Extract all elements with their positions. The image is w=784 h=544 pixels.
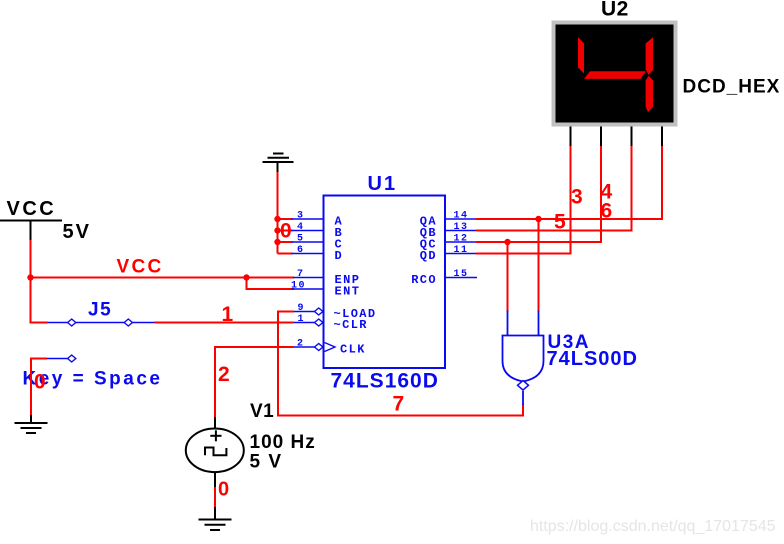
V1 plus sign [210,430,221,441]
svg-text:0: 0 [218,479,229,501]
pin name D [335,249,342,263]
pin stub QA pin14 [445,218,477,220]
V1 top terminal stub [214,417,216,429]
pin name B [335,226,342,240]
NAND output stub (blue) [522,391,524,405]
wire V1 to CLK, net 2 [215,347,294,418]
svg-text:U2: U2 [601,0,629,21]
pin stub ~LOAD pin9 with bubble [294,311,315,313]
Key = Space label [23,369,163,390]
wire QC net 4 [476,145,601,242]
junction dot A [274,216,280,222]
junction dot C [274,239,280,245]
U3A label [548,332,591,353]
svg-text:1: 1 [298,314,304,325]
svg-text:VCC: VCC [117,257,164,278]
wire QA net 5 [476,145,662,219]
junction dot ENP branch [243,274,249,280]
svg-text:7: 7 [393,393,405,416]
junction dot QA [535,216,541,222]
V1 clock source circle [186,429,244,473]
switch J5 [47,323,155,359]
svg-text:ENT: ENT [335,285,361,299]
svg-text:RCO: RCO [411,273,437,287]
pin name ~LOAD [334,307,377,321]
74LS00D label [547,348,639,370]
5 V label [250,452,283,473]
segment G (digit 4 middle) [584,71,646,79]
svg-text:100 Hz: 100 Hz [250,432,316,453]
pin number 11 [454,245,469,256]
100 Hz label [250,432,316,453]
net number 2 [218,363,230,386]
svg-text:QD: QD [420,249,437,263]
wire V1 bottom to ground, net 0 [214,487,216,508]
V1 label [250,401,274,422]
svg-text:15: 15 [454,269,469,280]
pin stub ENP pin7 [293,277,324,279]
pin number 10 [291,281,306,292]
net number 0 (ABCD) [280,220,292,243]
pin name ~CLR [334,318,368,332]
wire NAND output to ~LOAD, net 7 [278,312,523,416]
watermark [530,518,776,535]
V1 bottom terminal stub [214,472,216,489]
wire QD net 3 [476,145,571,254]
pin name ENP [335,273,361,287]
svg-text:2: 2 [297,339,303,350]
wire QA branch down to NAND input [538,219,540,312]
junction dot B [274,227,280,233]
bubble CLK [315,344,323,351]
svg-text:10: 10 [291,281,306,292]
pin name CLK [340,343,366,357]
VCC label [7,198,57,220]
junction dot VCC [27,274,33,280]
wire QB net 6 [476,145,632,231]
pin number 1 [298,314,304,325]
pin number 3 [297,211,303,222]
net label VCC (red) [117,257,164,278]
pin stub CLK pin2 with bubble [294,346,315,348]
pin stub D pin6 [292,253,324,255]
clock input triangle [325,343,336,352]
svg-text:14: 14 [454,211,469,222]
svg-text:5 V: 5 V [250,452,283,473]
svg-text:CLK: CLK [340,343,366,357]
wire QC branch down to NAND input [507,242,509,312]
pin number 7 [297,269,303,280]
svg-text:3: 3 [297,211,303,222]
NAND gate U3A input stubs (blue) [508,311,539,337]
pin stub ENT pin10 [292,288,324,290]
svg-text:11: 11 [454,245,469,256]
net number 3 [571,186,583,209]
net number 6 [601,200,613,223]
switch contact diamond lower [68,355,76,362]
svg-text:5: 5 [554,211,566,234]
segment F (digit 4 top-left) [578,37,584,74]
pin number 13 [454,222,469,233]
ground (bottom left) [15,415,48,433]
svg-text:U1: U1 [368,173,398,195]
pin name QD [420,249,437,263]
svg-text:6: 6 [297,245,303,256]
U2 label [601,0,629,21]
5V value label [63,221,91,243]
display pin 2 [600,127,602,147]
pin number 12 [454,234,469,245]
junction dot QC [504,239,510,245]
pin number 15 [454,269,469,280]
pin name RCO [411,273,437,287]
ground (bottom middle) [199,507,232,530]
pin name QA [420,215,437,229]
DCD_HEX label [683,77,781,98]
pin stub QD pin11 [445,253,477,255]
svg-text:13: 13 [454,222,469,233]
display pin 4 [661,127,663,147]
U1 chip body 74LS160D [324,196,446,369]
pin stub QB pin13 [445,230,477,232]
pin stub QC pin12 [445,241,477,243]
svg-text:74LS160D: 74LS160D [331,370,439,393]
segment B (digit 4 top-right) [646,37,653,75]
display pin 1 [570,127,572,147]
svg-text:~CLR: ~CLR [334,318,368,332]
svg-text:V1: V1 [250,401,274,422]
svg-text:9: 9 [298,303,304,314]
switch contact diamond left [68,319,76,326]
74LS160D label [331,370,439,393]
J5 label [88,300,112,321]
pin stub RCO pin15 [445,277,477,279]
wire VCC horizontal to ENP [31,277,295,279]
wire branch to ENT pin 10 [247,278,295,290]
net number 4 [601,181,613,204]
svg-text:5V: 5V [63,221,91,243]
pin number 6 [297,245,303,256]
svg-text:74LS00D: 74LS00D [547,348,639,370]
switch contact diamond right [124,319,132,326]
pin stub A pin3 [292,218,324,220]
NAND gate U3A body [503,336,544,382]
pin name QB [420,226,437,240]
svg-text:5: 5 [297,234,303,245]
display pin 3 [631,127,633,147]
bubble ~LOAD [315,308,323,315]
pin number 14 [454,211,469,222]
VCC power symbol [0,221,62,242]
pin name ENT [335,285,361,299]
net number 0 (switch) [34,371,46,394]
pin name QC [420,238,437,252]
pin number 9 [298,303,304,314]
wire VCC vertical to switch [31,240,49,323]
net number 5 [554,211,566,234]
svg-text:4: 4 [297,222,303,233]
svg-text:2: 2 [218,363,230,386]
segment C (digit 4 bottom-right) [646,76,653,113]
pin number 2 [297,339,303,350]
wire net 0 vertical to ABCD [278,172,293,254]
svg-text:0: 0 [34,371,46,394]
pin stub C pin5 [292,241,324,243]
svg-text:D: D [335,249,342,263]
pin number 5 [297,234,303,245]
svg-text:VCC: VCC [7,198,57,220]
ground (top, inverted) [263,154,294,174]
pin number 4 [297,222,303,233]
bubble ~CLR [315,319,323,326]
wire switch lower throw to ground, net 0 [31,359,47,417]
svg-text:3: 3 [571,186,583,209]
svg-text:0: 0 [280,220,292,243]
NAND output bubble [518,381,529,390]
svg-text:6: 6 [601,200,613,223]
pin name C [335,238,342,252]
svg-text:12: 12 [454,234,469,245]
pin stub ~CLR pin1 with bubble [294,322,315,324]
V1 square wave symbol [205,448,226,456]
svg-text:https://blog.csdn.net/qq_17017: https://blog.csdn.net/qq_17017545 [530,518,776,535]
wire switch to ~CLR, net 1 [155,322,295,324]
net number 0 (V1) [218,479,229,501]
seven segment display U2 frame [552,21,678,127]
pin stub B pin4 [292,230,324,232]
net number 7 [393,393,405,416]
svg-text:7: 7 [297,269,303,280]
net number 1 [222,303,234,326]
svg-text:1: 1 [222,303,234,326]
U1 label [368,173,398,195]
svg-text:DCD_HEX: DCD_HEX [683,77,781,98]
svg-text:J5: J5 [88,300,112,321]
pin name A [335,215,343,229]
